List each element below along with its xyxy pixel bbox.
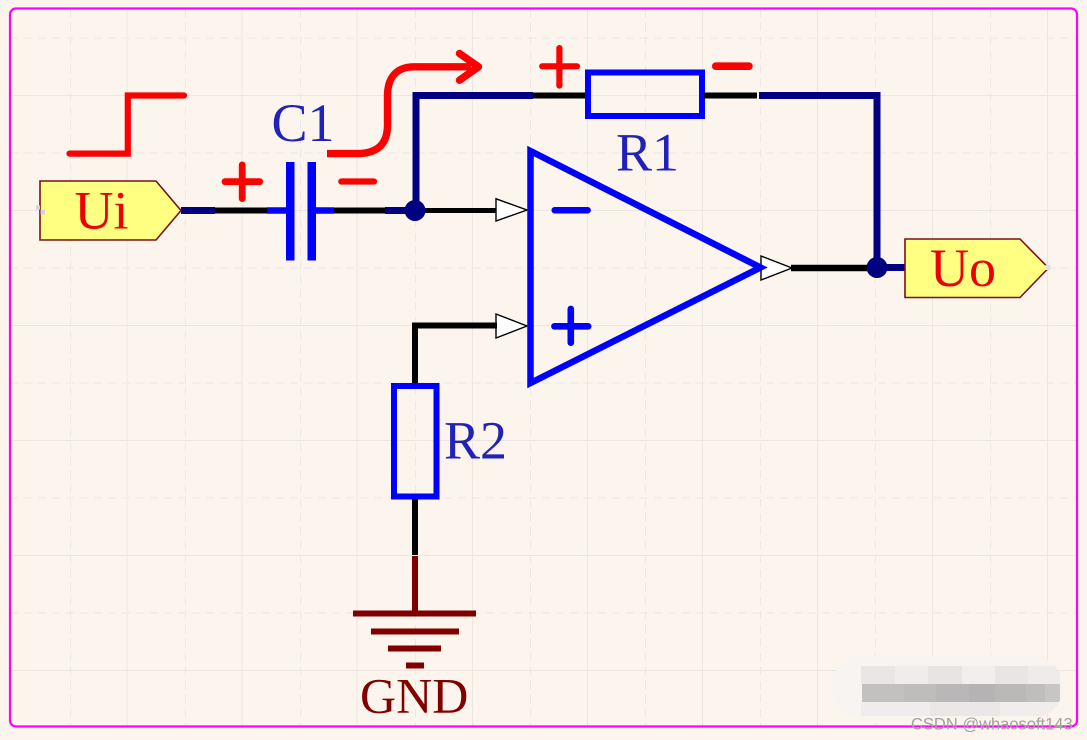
svg-text:R2: R2 — [444, 411, 507, 471]
svg-text:GND: GND — [360, 668, 468, 724]
svg-text:R1: R1 — [616, 123, 679, 183]
svg-text:C1: C1 — [272, 93, 335, 153]
svg-text:CSDN @whaosoft143: CSDN @whaosoft143 — [911, 716, 1073, 734]
svg-text:Uo: Uo — [930, 238, 996, 298]
svg-text:Ui: Ui — [75, 181, 129, 241]
